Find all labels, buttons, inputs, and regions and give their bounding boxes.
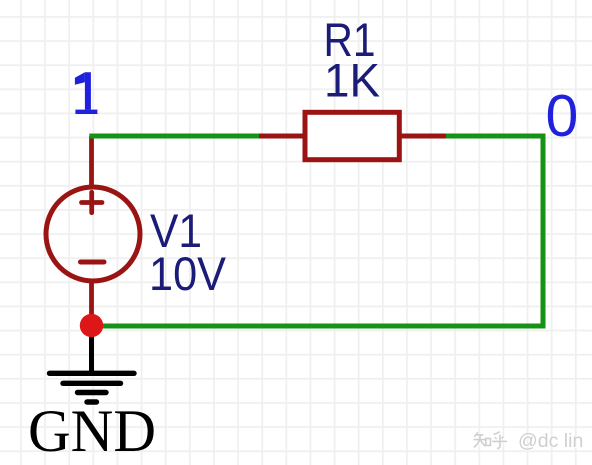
voltage source V1 circle [46,187,140,281]
watermark [474,430,585,453]
wire: resistor R1 right pin lead (dark red) [399,134,448,139]
svg-text:@dc lin: @dc lin [518,430,583,452]
wire: node 0 green wire from R1 right, down right side, back to junction [96,136,543,326]
resistor R1 body [305,112,399,159]
wire: V1 negative lead to junction (dark red) [89,280,94,327]
wire: resistor R1 left pin lead (dark red) [257,134,305,139]
V1 plus symbol [82,192,103,212]
svg-text:GND: GND [28,398,156,464]
svg-text:0: 0 [546,83,579,149]
node 1 label [75,72,98,114]
svg-text:1K: 1K [324,54,380,107]
wire: V1 positive lead, node 1 vertical (dark red) [89,136,94,189]
svg-text:10V: 10V [149,247,227,300]
V1 minus symbol [81,260,105,265]
wire: node 1 horizontal green wire from V1 top to R1 [89,134,259,139]
wire: junction to ground symbol (black) [89,330,94,372]
ground symbol bars [50,373,135,402]
junction dot at node 0 / GND [80,314,103,337]
